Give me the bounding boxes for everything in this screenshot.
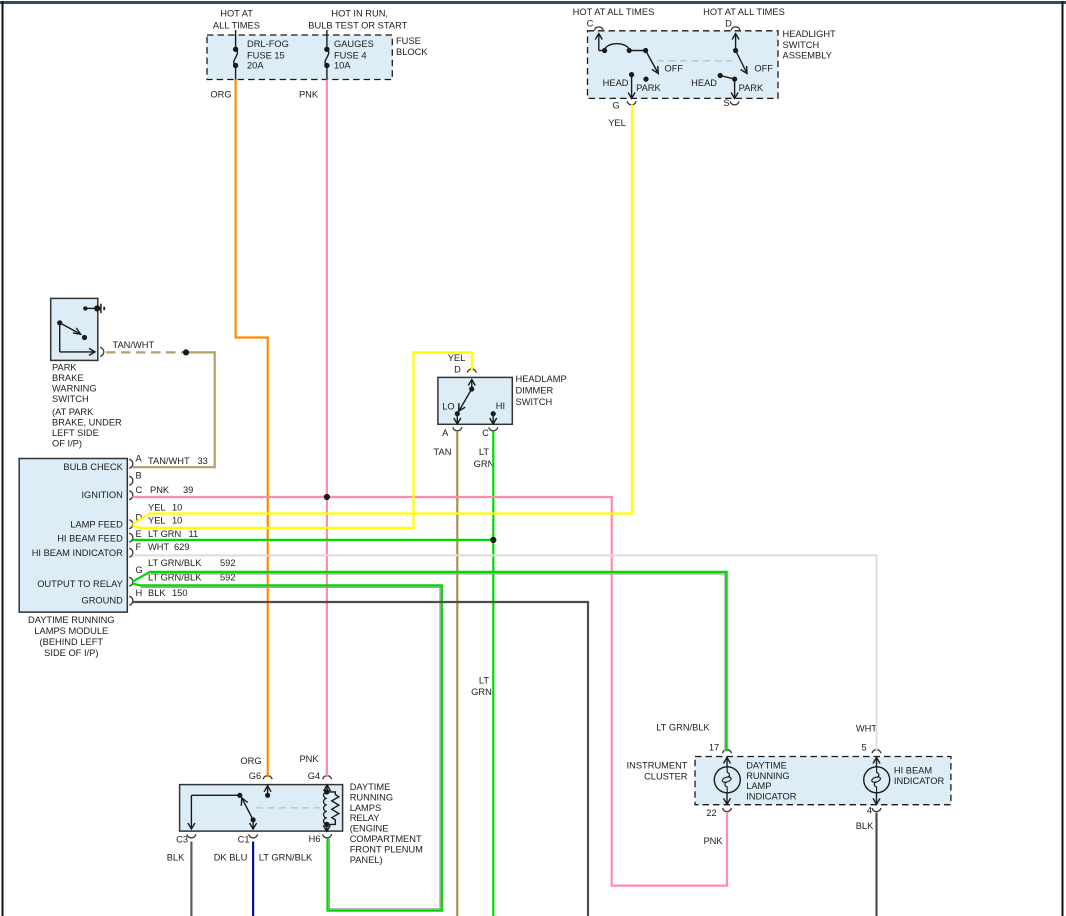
svg-text:DK BLU: DK BLU <box>214 853 248 863</box>
svg-text:BLOCK: BLOCK <box>396 47 428 57</box>
svg-text:LEFT SIDE: LEFT SIDE <box>52 428 99 438</box>
svg-text:F: F <box>136 542 142 552</box>
label FUSE BLOCK <box>396 36 428 57</box>
pin G connector arc <box>612 101 636 111</box>
svg-text:DRL-FOG: DRL-FOG <box>247 39 289 49</box>
svg-text:OFF: OFF <box>665 63 684 73</box>
svg-text:150: 150 <box>172 588 188 598</box>
svg-text:WARNING: WARNING <box>52 384 97 394</box>
svg-text:HEAD: HEAD <box>691 78 717 88</box>
svg-text:FRONT PLENUM: FRONT PLENUM <box>350 844 423 854</box>
svg-text:4: 4 <box>867 806 872 816</box>
wire BLK cluster pin 4 down <box>875 813 877 916</box>
svg-text:DAYTIME RUNNING: DAYTIME RUNNING <box>28 615 115 625</box>
svg-text:TAN/WHT: TAN/WHT <box>112 340 154 350</box>
svg-text:LT GRN/BLK: LT GRN/BLK <box>656 722 710 732</box>
svg-text:PARK: PARK <box>636 83 661 93</box>
svg-text:HOT AT: HOT AT <box>220 9 253 19</box>
svg-text:HOT IN RUN,: HOT IN RUN, <box>331 9 388 19</box>
svg-text:TAN/WHT: TAN/WHT <box>148 456 190 466</box>
svg-text:CLUSTER: CLUSTER <box>644 772 688 782</box>
relay pin H6 connector arc <box>309 834 332 844</box>
svg-text:HEADLAMP: HEADLAMP <box>516 374 567 384</box>
svg-text:G: G <box>136 565 143 575</box>
svg-text:C3: C3 <box>176 835 188 845</box>
svg-text:OF I/P): OF I/P) <box>52 438 82 448</box>
svg-text:33: 33 <box>198 456 208 466</box>
svg-text:G4: G4 <box>308 771 320 781</box>
svg-text:PARK: PARK <box>739 83 764 93</box>
svg-text:FUSE 15: FUSE 15 <box>247 51 285 61</box>
svg-text:HOT AT ALL TIMES: HOT AT ALL TIMES <box>573 7 655 17</box>
svg-text:HI BEAM: HI BEAM <box>894 766 932 776</box>
svg-text:RELAY: RELAY <box>350 813 380 823</box>
svg-text:A: A <box>136 454 143 464</box>
svg-text:BRAKE: BRAKE <box>52 373 84 383</box>
svg-text:LAMPS: LAMPS <box>350 803 382 813</box>
svg-text:INSTRUMENT: INSTRUMENT <box>627 761 688 771</box>
bulb hi beam indicator <box>864 757 890 805</box>
pin C connector arc <box>587 19 604 31</box>
cluster pin 22 connector arc <box>706 808 731 818</box>
svg-text:H6: H6 <box>309 834 321 844</box>
svg-text:5: 5 <box>861 743 866 753</box>
pin D connector arc <box>725 19 740 31</box>
svg-text:G: G <box>612 101 619 111</box>
wire TAN/WHT park brake switch dashed segment <box>106 351 186 353</box>
page right border <box>1062 1 1064 916</box>
svg-text:C: C <box>136 485 143 495</box>
label INSTRUMENT CLUSTER <box>627 761 688 782</box>
svg-text:GRN: GRN <box>474 459 495 469</box>
svg-text:LT GRN/BLK: LT GRN/BLK <box>259 853 313 863</box>
daytime running lamps relay box <box>180 785 343 832</box>
instrument cluster box <box>695 757 951 805</box>
svg-text:LAMP FEED: LAMP FEED <box>70 519 123 529</box>
svg-text:629: 629 <box>174 542 190 552</box>
relay pin C1 connector arc <box>238 834 258 844</box>
cluster pin 17 connector arc <box>709 743 732 754</box>
svg-text:DAYTIME: DAYTIME <box>350 782 391 792</box>
wire YEL module pin D to headlight switch pin G <box>133 105 633 525</box>
module pin H connector <box>129 588 187 605</box>
svg-text:SWITCH: SWITCH <box>516 397 553 407</box>
svg-text:ALL TIMES: ALL TIMES <box>213 20 260 30</box>
module pin E connector <box>129 529 198 542</box>
svg-text:IGNITION: IGNITION <box>81 490 122 500</box>
svg-text:11: 11 <box>189 529 199 539</box>
cluster pin 5 connector arc <box>861 743 881 754</box>
junction node PNK <box>324 494 330 500</box>
svg-text:D: D <box>725 19 732 29</box>
svg-text:(AT PARK: (AT PARK <box>52 407 94 417</box>
svg-text:DIMMER: DIMMER <box>516 385 554 395</box>
wire LT GRN/BLK module pin G to relay H6 <box>133 583 442 910</box>
label HI BEAM INDICATOR <box>894 766 945 786</box>
label HOT AT ALL TIMES (fuse 15 feed) <box>213 9 260 31</box>
svg-text:BLK: BLK <box>148 588 166 598</box>
svg-text:B: B <box>136 471 142 481</box>
wire WHT module pin F to cluster pin 5 <box>133 555 877 751</box>
page top border <box>0 1 1066 4</box>
svg-text:C1: C1 <box>238 835 250 845</box>
svg-text:D: D <box>454 365 461 375</box>
svg-text:BLK: BLK <box>856 821 874 831</box>
svg-text:COMPARTMENT: COMPARTMENT <box>350 834 422 844</box>
cluster pin 4 connector arc <box>867 806 881 816</box>
svg-text:PARK: PARK <box>52 362 77 372</box>
label HOT IN RUN, BULB TEST OR START (fuse 4 feed) <box>308 9 407 31</box>
headlamp dimmer switch box <box>438 377 512 424</box>
svg-text:G6: G6 <box>249 771 261 781</box>
wire BLK module pin H ground <box>133 602 589 916</box>
svg-text:HI BEAM FEED: HI BEAM FEED <box>57 534 123 544</box>
dimmer pin C connector arc <box>482 427 498 438</box>
svg-text:TAN: TAN <box>434 447 452 457</box>
svg-text:YEL: YEL <box>148 502 166 512</box>
label LT GRN wire name (mid page) <box>471 676 492 698</box>
label HEADLIGHT SWITCH ASSEMBLY <box>783 29 837 61</box>
svg-text:LAMPS MODULE: LAMPS MODULE <box>34 626 108 636</box>
junction node TAN/WHT <box>183 349 189 355</box>
relay pin C3 connector arc <box>176 834 196 844</box>
label DAYTIME RUNNING LAMPS MODULE caption <box>28 615 115 658</box>
svg-text:YEL: YEL <box>448 353 466 363</box>
wire LT GRN/BLK stripe (module pin G to cluster pin 17) <box>151 574 725 751</box>
svg-text:PANEL): PANEL) <box>350 855 383 865</box>
park/head switch section 2 (pin D to S) <box>691 34 773 99</box>
relay coil with parallel resistor <box>323 785 339 832</box>
label DAYTIME RUNNING LAMP INDICATOR <box>746 761 797 802</box>
park/head switch section 1 (pin C to G) <box>595 34 683 99</box>
svg-text:PNK: PNK <box>299 754 319 764</box>
svg-text:HEADLIGHT: HEADLIGHT <box>783 29 837 39</box>
label LT GRN wire name <box>474 447 495 469</box>
svg-text:LO: LO <box>442 401 454 411</box>
svg-text:RUNNING: RUNNING <box>350 792 393 802</box>
wire DK BLU relay C1 down <box>252 842 254 916</box>
page left border <box>2 1 4 916</box>
svg-text:20A: 20A <box>247 61 264 71</box>
svg-text:SWITCH: SWITCH <box>783 40 820 50</box>
wire TAN/WHT to module pin A <box>133 352 215 467</box>
svg-text:592: 592 <box>220 558 236 568</box>
label HEADLAMP DIMMER SWITCH <box>516 374 567 407</box>
svg-text:SWITCH: SWITCH <box>52 394 89 404</box>
svg-text:H: H <box>136 588 143 598</box>
svg-text:10A: 10A <box>334 61 351 71</box>
svg-text:GRN: GRN <box>471 687 492 697</box>
dimmer switch internals <box>442 380 505 425</box>
wire LT GRN/BLK stripe (module pin G to relay H6) <box>141 587 440 909</box>
daytime running lamps module box <box>19 459 127 613</box>
svg-text:INDICATOR: INDICATOR <box>894 776 945 786</box>
module pin A connector <box>129 454 208 469</box>
wire YEL module pin D to dimmer pin D <box>133 352 472 528</box>
svg-text:WHT: WHT <box>856 724 877 734</box>
junction node LT GRN <box>490 537 496 543</box>
svg-text:A: A <box>442 428 449 438</box>
svg-text:ORG: ORG <box>240 756 261 766</box>
relay pin G4 connector arc <box>308 771 332 781</box>
svg-text:HOT AT ALL TIMES: HOT AT ALL TIMES <box>703 7 785 17</box>
svg-text:YEL: YEL <box>608 118 626 128</box>
svg-text:LT: LT <box>479 447 489 457</box>
fuse DRL-FOG FUSE 15 20A <box>233 30 289 80</box>
label PARK BRAKE WARNING SWITCH caption <box>52 362 122 448</box>
svg-text:ORG: ORG <box>210 90 231 100</box>
svg-text:OUTPUT TO RELAY: OUTPUT TO RELAY <box>37 579 123 589</box>
svg-text:C: C <box>587 19 594 29</box>
module pin C connector <box>129 485 193 500</box>
svg-text:22: 22 <box>706 808 716 818</box>
wire TAN dimmer pin A down <box>456 432 458 916</box>
park brake switch output connector arc <box>100 347 104 356</box>
svg-text:(BEHIND LEFT: (BEHIND LEFT <box>40 637 104 647</box>
svg-text:BRAKE, UNDER: BRAKE, UNDER <box>52 417 122 427</box>
wire PNK fuse4 to relay G4 <box>326 80 328 778</box>
svg-text:FUSE: FUSE <box>396 36 421 46</box>
module pin F connector <box>129 542 189 557</box>
wire BLK relay C3 down <box>190 842 192 916</box>
fuse block box <box>207 35 392 80</box>
dimmer pin D connector arc <box>454 365 476 375</box>
svg-text:FUSE 4: FUSE 4 <box>334 51 367 61</box>
wire LT GRN module pin E hi beam feed <box>133 539 494 541</box>
label DAYTIME RUNNING LAMPS RELAY caption <box>350 782 423 865</box>
svg-text:GROUND: GROUND <box>81 596 123 606</box>
relay linkage dashed line <box>256 807 320 809</box>
relay pin G6 connector arc <box>249 771 272 781</box>
svg-text:PNK: PNK <box>703 836 723 846</box>
svg-text:DAYTIME: DAYTIME <box>746 761 787 771</box>
svg-text:GAUGES: GAUGES <box>334 39 374 49</box>
svg-text:39: 39 <box>183 485 193 495</box>
dimmer pin A connector arc <box>442 427 462 438</box>
svg-text:LT GRN: LT GRN <box>148 529 181 539</box>
svg-text:17: 17 <box>709 743 719 753</box>
svg-text:LAMP: LAMP <box>746 781 771 791</box>
svg-text:BULB TEST OR START: BULB TEST OR START <box>308 20 407 30</box>
svg-text:(ENGINE: (ENGINE <box>350 823 389 833</box>
svg-text:INDICATOR: INDICATOR <box>746 792 797 802</box>
module pin D connector <box>129 502 182 528</box>
svg-text:S: S <box>723 98 729 108</box>
svg-text:WHT: WHT <box>148 542 169 552</box>
svg-text:SIDE OF I/P): SIDE OF I/P) <box>44 648 98 658</box>
svg-text:HI: HI <box>496 401 505 411</box>
svg-text:C: C <box>482 428 489 438</box>
svg-text:HI BEAM INDICATOR: HI BEAM INDICATOR <box>32 548 123 558</box>
svg-text:E: E <box>136 529 142 539</box>
park brake switch internals <box>57 304 104 356</box>
svg-text:OFF: OFF <box>754 63 773 73</box>
svg-text:PNK: PNK <box>299 90 319 100</box>
svg-text:10: 10 <box>172 502 182 512</box>
switch linkage dashed line <box>657 60 732 62</box>
pin S connector arc <box>723 98 739 108</box>
svg-text:RUNNING: RUNNING <box>746 771 789 781</box>
svg-text:BULB CHECK: BULB CHECK <box>63 462 123 472</box>
bulb daytime running lamp indicator <box>714 757 740 805</box>
svg-text:LT GRN/BLK: LT GRN/BLK <box>148 558 202 568</box>
module pin G connector <box>129 558 235 586</box>
wire PNK module pin C ignition to cluster pin 22 <box>133 497 728 886</box>
wire ORG fuse15 to relay G6 <box>236 80 268 778</box>
svg-text:10: 10 <box>172 516 182 526</box>
module pin B connector <box>129 471 142 486</box>
wire LT GRN/BLK module pin G to cluster pin 17 <box>133 572 727 752</box>
wire LT GRN dimmer pin C down <box>492 431 494 916</box>
svg-text:YEL: YEL <box>148 516 166 526</box>
svg-text:BLK: BLK <box>167 853 185 863</box>
svg-text:ASSEMBLY: ASSEMBLY <box>783 51 832 61</box>
svg-text:LT: LT <box>479 676 489 686</box>
svg-text:HEAD: HEAD <box>603 78 629 88</box>
relay switch contacts <box>188 785 271 829</box>
svg-text:PNK: PNK <box>150 485 170 495</box>
park brake warning switch box <box>51 298 98 360</box>
headlight switch assembly box <box>588 31 779 99</box>
fuse GAUGES FUSE 4 10A <box>324 30 374 80</box>
